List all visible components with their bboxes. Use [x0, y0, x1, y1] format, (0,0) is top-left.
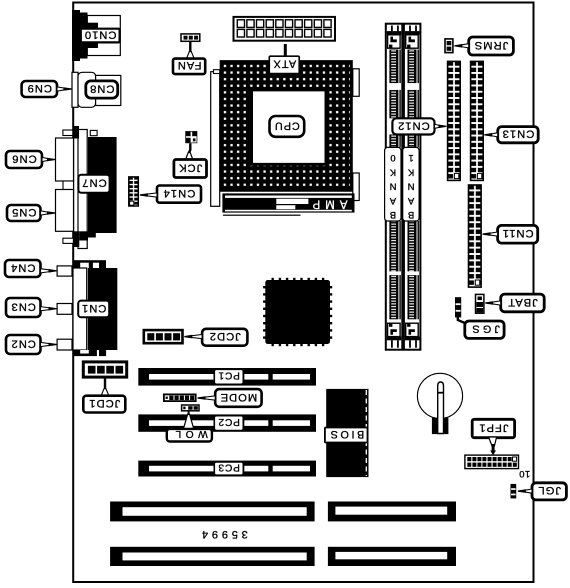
svg-text:JCD2: JCD2 [209, 330, 241, 342]
arrow CN3 [41, 307, 51, 311]
stem JCK [189, 143, 190, 155]
connector CN6 (DB9) [56, 138, 74, 181]
svg-text:ATX: ATX [272, 58, 296, 70]
label CN2 [6, 335, 41, 354]
ATX label [284, 44, 287, 57]
svg-text:A: A [407, 195, 414, 206]
slot PCI slot PC2 [138, 414, 316, 431]
svg-text:CN9: CN9 [27, 82, 52, 94]
stem JCD1 [104, 377, 106, 390]
arrow CN5 [41, 211, 49, 215]
svg-text:JFP1: JFP1 [478, 421, 508, 433]
svg-text:JCD1: JCD1 [88, 397, 120, 409]
svg-text:0: 0 [390, 152, 395, 163]
svg-text:JRMS: JRMS [474, 39, 508, 51]
label CN12 [392, 118, 434, 134]
connector CN1 top bar [74, 260, 107, 268]
svg-text:JCK: JCK [178, 161, 202, 173]
jumper JRMS [445, 39, 453, 53]
label WOL [167, 429, 212, 442]
stem JFP1 [489, 437, 497, 446]
jumper JGS [455, 297, 461, 317]
svg-text:CN4: CN4 [10, 261, 35, 273]
svg-text:10: 10 [519, 468, 531, 479]
label JFP1 [472, 419, 514, 437]
label CN7 [78, 175, 109, 193]
svg-text:AMP: AMP [308, 197, 348, 209]
arrow CN13 [491, 133, 498, 137]
svg-text:CN8: CN8 [89, 82, 114, 94]
connector CN5 (DB9) [56, 190, 74, 232]
label CN4 [5, 260, 41, 277]
label CN3 [6, 298, 41, 317]
socket lever [211, 72, 220, 207]
arrow CN12 [435, 124, 441, 128]
svg-text:CN12: CN12 [397, 119, 430, 131]
notch [63, 181, 74, 190]
slot ISA slot 1 [110, 502, 315, 522]
arrow CN14 [146, 193, 157, 197]
svg-text:A: A [389, 195, 396, 206]
connector CN12 strip [448, 61, 461, 180]
DIMM slot BANK1 [404, 24, 421, 350]
bracket strip [78, 130, 87, 249]
link JGS [458, 317, 466, 324]
connector CN14 [129, 177, 139, 206]
header MODE [164, 394, 196, 401]
label JGS [465, 321, 504, 338]
board outline [73, 3, 533, 583]
label JCD2 [202, 329, 247, 346]
svg-text:PC1: PC1 [218, 370, 240, 381]
label MODE [215, 389, 261, 407]
label CN9 [22, 81, 57, 97]
svg-text:CPU: CPU [274, 119, 300, 131]
label CN14 [157, 186, 201, 203]
label CN10 [81, 29, 120, 43]
slot PCI slot PC1 [138, 368, 316, 386]
stem FAN [189, 41, 191, 52]
svg-text:N: N [408, 181, 415, 192]
slot ISA slot 2 [110, 547, 315, 566]
header JCD1 [83, 362, 126, 377]
svg-text:B: B [408, 209, 414, 220]
DIMM slot BANK0 (CN12 area) [386, 24, 403, 350]
svg-text:MODE: MODE [220, 391, 258, 403]
label JBAT [501, 294, 545, 312]
svg-text:CN7: CN7 [81, 177, 106, 189]
svg-text:K: K [389, 166, 396, 177]
svg-text:CN1: CN1 [81, 302, 106, 314]
top mount block [73, 126, 80, 139]
arrow CN11 [489, 232, 498, 236]
svg-text:CN11: CN11 [502, 227, 534, 239]
label JGL [532, 483, 566, 500]
svg-text:B: B [390, 209, 396, 220]
header JFP1 [465, 455, 519, 469]
connector CN2 [57, 339, 72, 350]
arrow CN2 [41, 342, 51, 346]
jumper JCK [185, 131, 197, 143]
connector CN4 [57, 266, 72, 276]
slot AMP [222, 193, 354, 212]
jumper JGL [511, 484, 517, 499]
svg-text:WOL: WOL [171, 428, 208, 439]
svg-text:PC3: PC3 [218, 461, 240, 472]
arrow CN6 [42, 157, 49, 161]
header JCD2 [144, 330, 183, 343]
label JCD1 [83, 396, 125, 413]
CPU label [270, 116, 305, 137]
svg-text:CN3: CN3 [11, 300, 36, 312]
svg-text:35994: 35994 [198, 528, 248, 540]
svg-text:PC2: PC2 [218, 416, 240, 427]
svg-text:JBAT: JBAT [507, 296, 538, 308]
label CN5 [7, 205, 41, 221]
slot PCI slot PC3 [138, 461, 316, 477]
svg-text:JGL: JGL [537, 484, 561, 496]
label JCK [174, 160, 207, 178]
label CN13 [498, 127, 539, 143]
arrow JRMS [461, 44, 469, 48]
label CN8 [86, 81, 118, 98]
svg-text:CN10: CN10 [84, 28, 117, 40]
arrow JBAT [492, 301, 501, 305]
label FAN [173, 59, 205, 75]
connector CN7 body [88, 137, 117, 233]
arrow CN4 [41, 269, 51, 273]
connector FAN [181, 34, 200, 41]
arrow JGL [524, 489, 532, 493]
arrow CN9 [57, 87, 65, 91]
label BIOS [325, 428, 368, 443]
svg-text:CN13: CN13 [502, 128, 535, 140]
label JRMS [469, 37, 514, 55]
svg-text:CN5: CN5 [11, 206, 36, 218]
connector CN8 [72, 72, 78, 107]
chipset U1 [265, 280, 330, 344]
svg-text:N: N [389, 181, 396, 192]
svg-text:K: K [407, 166, 414, 177]
jumper JBAT [476, 294, 484, 313]
connector CN1 [73, 268, 87, 350]
socket tabs [353, 69, 359, 97]
label CN11 [498, 225, 538, 243]
battery [417, 373, 462, 418]
header WOL [182, 405, 199, 411]
label CN1 [78, 301, 109, 318]
connector ATX [234, 17, 336, 41]
connector CN1 bottom bar [74, 350, 97, 356]
svg-text:BIOS: BIOS [328, 428, 364, 440]
svg-text:CN6: CN6 [11, 152, 36, 164]
svg-text:CN14: CN14 [163, 187, 196, 199]
bottom mount block [73, 231, 79, 247]
connector CN3 [57, 304, 72, 315]
arrow JCD2 [191, 335, 202, 339]
svg-text:JGS: JGS [469, 323, 500, 335]
svg-text:1: 1 [408, 152, 413, 163]
CPU socket [220, 60, 353, 192]
stem WOL [188, 411, 190, 416]
arrow MODE [204, 396, 215, 400]
label CN6 [6, 151, 42, 168]
svg-text:CN2: CN2 [11, 337, 36, 349]
svg-text:FAN: FAN [177, 59, 202, 71]
connector CN10 [72, 10, 80, 61]
BIOS chip [326, 389, 368, 477]
